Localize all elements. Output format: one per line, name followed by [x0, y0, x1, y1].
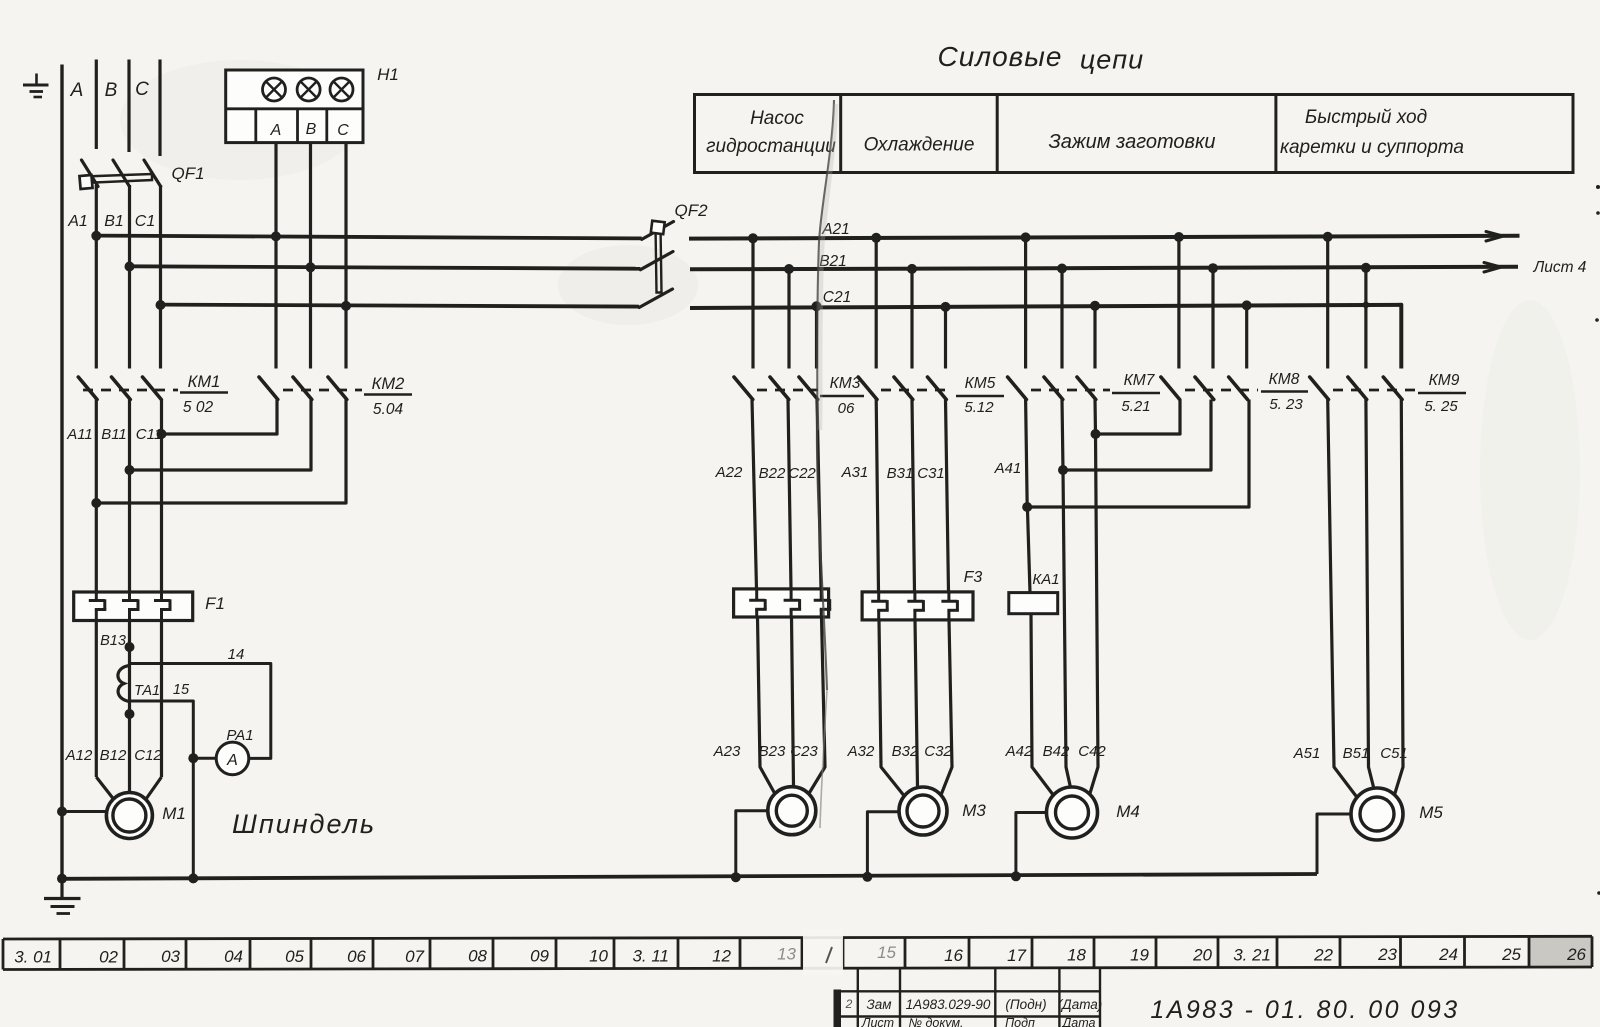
wire link C11 to KM2 pole1: [162, 400, 278, 435]
label Sheet 4 (Лист 4): [1533, 259, 1587, 276]
wire KM3 pole1 feed: [751, 238, 754, 368]
wire link KM8 pole3 out: [1027, 400, 1249, 508]
scan edge specks: [1595, 185, 1600, 895]
junction M3 frame-PE: [862, 872, 872, 882]
node label B22: [759, 465, 786, 482]
node label C1: [135, 213, 155, 230]
wire B13-B12 vertical: [128, 621, 131, 792]
contactor KM2 contacts: [259, 377, 362, 400]
wire KM5 pole2 feed: [910, 269, 913, 369]
svg-text:15: 15: [173, 682, 190, 698]
svg-text:М3: М3: [962, 801, 986, 820]
node label C23: [790, 743, 818, 760]
svg-text:B: B: [105, 80, 118, 101]
header cell 2 text: [864, 135, 975, 156]
wire KM7 pole1 feed: [1024, 237, 1027, 368]
label QF2: [674, 201, 708, 220]
svg-text:07: 07: [405, 947, 424, 966]
svg-text:06: 06: [838, 400, 855, 417]
wire C1 vertical: [159, 185, 162, 369]
label M4: [1116, 802, 1140, 821]
junction KM9 pole1 feed: [1323, 232, 1333, 242]
title Power circuits (Силовые цепи): [938, 41, 1145, 75]
node label B32: [892, 743, 919, 760]
wire phase stub B: [127, 60, 130, 153]
svg-text:16: 16: [944, 946, 963, 965]
wire KM1 output A11: [95, 400, 98, 593]
junction C11 link: [157, 429, 167, 439]
label KM5 with value 5.12: [956, 375, 1004, 416]
wire bottom PE bus: [62, 874, 1317, 879]
svg-text:В12: В12: [100, 747, 127, 764]
svg-text:19: 19: [1130, 946, 1149, 965]
svg-text:(Дата): (Дата): [1058, 997, 1103, 1012]
junction KM9 pole2 feed: [1361, 263, 1371, 273]
wire KM7 pole3 feed: [1093, 306, 1096, 369]
label KM7 with value 5.21: [1112, 372, 1160, 415]
node label B11: [101, 426, 127, 443]
wire KM7 out3 (C42): [1089, 400, 1098, 797]
scan fold crease: [817, 100, 836, 828]
wire KM3 out3 to M2: [807, 400, 826, 798]
junction KM8 pole3 feed: [1242, 300, 1252, 310]
junction KM3 pole2 feed: [784, 264, 794, 274]
label B21: [819, 253, 847, 270]
contactor KM5 contacts: [858, 377, 952, 400]
arrow A21 to sheet 4: [1486, 232, 1503, 242]
node label C32: [924, 743, 952, 760]
node label A41: [994, 460, 1022, 477]
node label A11: [66, 426, 93, 443]
wire KM5 pole3 feed: [944, 307, 947, 369]
fold damage on ruler: [803, 929, 843, 975]
svg-text:КА1: КА1: [1032, 571, 1059, 588]
svg-text:5.04: 5.04: [373, 401, 404, 418]
svg-text:(Подн): (Подн): [1005, 997, 1046, 1012]
header cell 1 text: [706, 108, 836, 157]
wire KM7 out1 (A41-A42): [1026, 400, 1054, 797]
svg-text:5. 23: 5. 23: [1269, 396, 1303, 413]
sheet zone ruler strip: [3, 936, 1592, 969]
junction B11 link: [125, 465, 135, 475]
svg-text:В13: В13: [100, 633, 126, 649]
label 14: [228, 646, 245, 663]
svg-text:С31: С31: [917, 465, 945, 482]
svg-text:КМ2: КМ2: [372, 375, 405, 393]
node label A42: [1005, 743, 1033, 760]
wire KM9 out3 to M5: [1394, 400, 1404, 799]
contactor KM7 contacts: [1008, 377, 1110, 400]
svg-text:Зажим заготовки: Зажим заготовки: [1048, 131, 1215, 153]
svg-text:5 02: 5 02: [183, 399, 214, 416]
wire KM5 pole1 feed: [875, 238, 878, 369]
junction A1-bus: [91, 231, 101, 241]
svg-text:С12: С12: [134, 747, 162, 764]
wire KM8 pole3 feed: [1245, 305, 1248, 368]
junction B13: [125, 642, 135, 652]
wire bus A1 segment: [96, 236, 641, 239]
node label C11: [136, 426, 162, 443]
node label C51: [1380, 745, 1408, 762]
svg-text:С22: С22: [788, 465, 816, 482]
svg-text:КМ7: КМ7: [1124, 372, 1156, 389]
svg-text:КМ1: КМ1: [188, 373, 221, 391]
node label A: [70, 80, 84, 101]
title block row2 text: [861, 1016, 1096, 1027]
svg-text:ТА1: ТА1: [134, 683, 160, 699]
svg-text:20: 20: [1192, 945, 1212, 964]
wire KM7 out2 (B42): [1062, 400, 1071, 788]
svg-text:2: 2: [845, 997, 853, 1011]
wire KM1 output B11: [128, 400, 131, 593]
svg-text:А31: А31: [841, 464, 869, 481]
wire KM3 out1 to M2: [752, 400, 777, 798]
motor M4: [1047, 787, 1098, 838]
function header table: [695, 95, 1574, 173]
junction KM5 pole2 feed: [907, 264, 917, 274]
wire H1-A vertical: [274, 143, 277, 369]
svg-text:5.21: 5.21: [1121, 398, 1150, 415]
junction link2: [1058, 465, 1068, 475]
node label C31: [917, 465, 945, 482]
svg-text:Быстрый ход: Быстрый ход: [1305, 107, 1427, 128]
svg-text:QF2: QF2: [674, 201, 708, 220]
svg-text:В11: В11: [101, 426, 127, 443]
label M1: [162, 804, 186, 823]
svg-text:Подп: Подп: [1005, 1016, 1035, 1027]
node label A51: [1293, 745, 1321, 762]
svg-text:F3: F3: [964, 569, 983, 586]
svg-text:КМ8: КМ8: [1269, 371, 1300, 388]
wire H1-B vertical: [309, 143, 312, 369]
svg-text:КМ5: КМ5: [965, 375, 996, 392]
svg-text:03: 03: [161, 947, 180, 966]
svg-text:А11: А11: [66, 426, 93, 443]
svg-text:24: 24: [1438, 945, 1458, 964]
junction KM5 pole1 feed: [871, 233, 881, 243]
svg-text:H1: H1: [377, 65, 399, 84]
label A21: [821, 221, 850, 238]
svg-text:М5: М5: [1419, 803, 1443, 822]
wire KM5 out2 to M3: [912, 400, 918, 788]
junction TA1 bottom: [125, 709, 135, 719]
svg-text:А32: А32: [847, 743, 875, 760]
node label B1: [104, 213, 124, 230]
wire KM5 out3 to M3: [940, 400, 952, 798]
svg-text:Дата: Дата: [1061, 1016, 1096, 1027]
svg-text:В51: В51: [1343, 745, 1370, 762]
svg-text:А22: А22: [715, 464, 743, 481]
svg-text:08: 08: [468, 947, 487, 966]
current transformer TA1: [118, 666, 130, 702]
svg-text:каретки и суппорта: каретки и суппорта: [1280, 137, 1464, 158]
svg-text:C: C: [337, 122, 349, 139]
ground PE symbol top-left: [23, 74, 49, 98]
junction PE-M1: [57, 807, 67, 817]
node label B: [105, 80, 118, 101]
svg-text:C: C: [135, 79, 149, 100]
svg-text:1А983.029-90: 1А983.029-90: [906, 997, 991, 1012]
title block grid: [834, 968, 1101, 1027]
label KM2 with value 5.04: [364, 375, 412, 418]
junction link3: [1022, 502, 1032, 512]
wire C12 vertical: [146, 621, 162, 800]
svg-text:06: 06: [347, 947, 366, 966]
wire KM9 pole1 feed: [1326, 237, 1329, 369]
junction KM7 pole1 feed: [1021, 232, 1031, 242]
motor M2: [768, 787, 816, 835]
svg-text:В42: В42: [1043, 743, 1070, 760]
circuit breaker QF2: [639, 221, 673, 308]
wire bus A21: [689, 236, 1520, 239]
wire M4 frame to PE: [1016, 813, 1047, 877]
wire PA1 node to PE bus: [192, 758, 195, 878]
wire M2 frame to PE: [736, 811, 768, 878]
label KM9 with value 5.25: [1418, 372, 1466, 415]
wire H1-C vertical: [344, 143, 347, 369]
svg-text:А42: А42: [1005, 743, 1033, 760]
junction A11 link: [91, 498, 101, 508]
thermal overload relay (M2 branch): [734, 589, 832, 617]
svg-text:Зам: Зам: [866, 997, 891, 1012]
circuit breaker QF1: [79, 160, 160, 189]
label QF1: [171, 164, 204, 183]
label KM1 with value 5.02: [180, 373, 228, 416]
wire link B11 to KM2 pole2: [130, 400, 312, 471]
node label A32: [847, 743, 875, 760]
header cell 3 text: [1048, 131, 1215, 153]
svg-text:A: A: [270, 122, 282, 139]
svg-text:Шпиндель: Шпиндель: [232, 809, 376, 839]
svg-text:КМ3: КМ3: [830, 375, 861, 392]
svg-text:22: 22: [1313, 945, 1333, 964]
svg-text:18: 18: [1067, 946, 1086, 965]
node label B23: [759, 743, 786, 760]
svg-text:A1: A1: [67, 213, 88, 230]
contactor KM9 contacts: [1310, 377, 1415, 400]
motor M1: [106, 793, 152, 839]
svg-text:Охлаждение: Охлаждение: [864, 135, 975, 156]
ammeter PA1: [216, 742, 249, 775]
ground symbol bottom: [44, 879, 81, 914]
wire bus B21: [690, 267, 1518, 270]
svg-text:05: 05: [285, 947, 304, 966]
wire bus B1 segment: [130, 266, 641, 268]
wire KM3 pole3 feed: [815, 306, 818, 368]
svg-text:КМ9: КМ9: [1429, 372, 1460, 389]
svg-text:5.12: 5.12: [964, 399, 994, 416]
svg-text:А51: А51: [1293, 745, 1321, 762]
junction H1B-bus: [306, 262, 316, 272]
wire link KM8 pole2 out: [1063, 400, 1211, 471]
current relay KA1: [1009, 593, 1058, 614]
node label C42: [1078, 743, 1106, 760]
svg-text:С23: С23: [790, 743, 818, 760]
svg-text:гидростанции: гидростанции: [706, 136, 836, 157]
wire A1 vertical: [95, 185, 98, 369]
junction link1: [1091, 429, 1101, 439]
svg-text:С21: С21: [823, 289, 851, 306]
svg-text:25: 25: [1501, 945, 1521, 964]
svg-text:1А983 - 01. 80. 00 093: 1А983 - 01. 80. 00 093: [1150, 996, 1459, 1024]
svg-text:Силовые: Силовые: [938, 41, 1063, 72]
wire bus C1 segment: [161, 305, 640, 307]
svg-text:№ докум.: № докум.: [908, 1016, 963, 1027]
junction KM3 pole1 feed: [748, 233, 758, 243]
svg-text:С32: С32: [924, 743, 952, 760]
junction crossing blob B21drop-C21: [1363, 302, 1370, 309]
node label B13: [100, 633, 126, 649]
wire KM7 pole2 feed: [1060, 269, 1063, 369]
junction H1A-bus: [271, 231, 281, 241]
svg-text:РА1: РА1: [226, 727, 253, 744]
wire bus C21: [690, 305, 1401, 369]
svg-text:B: B: [306, 121, 317, 138]
node label B31: [887, 465, 914, 482]
svg-text:С42: С42: [1078, 743, 1106, 760]
junction M2 frame-PE: [731, 872, 741, 882]
motor M5: [1351, 788, 1403, 840]
svg-text:3. 11: 3. 11: [632, 946, 669, 965]
title block row1 text: [845, 997, 1103, 1012]
label F3: [964, 569, 983, 586]
svg-text:А41: А41: [994, 460, 1022, 477]
node label C12: [134, 747, 162, 764]
label Spindle (Шпиндель): [232, 809, 376, 839]
wire M3 frame to PE: [867, 812, 899, 877]
svg-text:В22: В22: [759, 465, 786, 482]
svg-text:A: A: [70, 80, 84, 101]
node label A22: [715, 464, 743, 481]
thermal overload relay F3: [862, 592, 973, 620]
junction KM5 pole3 feed: [941, 302, 951, 312]
svg-text:цепи: цепи: [1080, 45, 1144, 75]
junction KM8 pole2 feed: [1208, 263, 1218, 273]
node label A12: [65, 747, 93, 764]
thermal overload relay F1: [74, 592, 193, 621]
svg-text:М4: М4: [1116, 802, 1140, 821]
junction KM7 pole2 feed: [1057, 264, 1067, 274]
wire 15 (TA1 to PA1): [130, 701, 217, 758]
wire KM9 pole2 feed: [1364, 268, 1367, 369]
header cell 4 text: [1280, 107, 1464, 158]
svg-text:3. 21: 3. 21: [1233, 945, 1271, 964]
wire KM3 out2 to M2: [788, 400, 794, 787]
label 15: [173, 682, 190, 698]
svg-text:15: 15: [877, 943, 896, 962]
junction PE corner: [57, 874, 67, 884]
svg-text:А: А: [226, 752, 238, 769]
label M3: [962, 801, 986, 820]
svg-text:5. 25: 5. 25: [1424, 398, 1458, 415]
svg-text:02: 02: [99, 947, 118, 966]
junction M4 frame-PE: [1011, 871, 1021, 881]
svg-text:В32: В32: [892, 743, 919, 760]
node label A1: [67, 213, 88, 230]
svg-text:В23: В23: [759, 743, 786, 760]
wire PE to M1 frame: [62, 810, 107, 813]
svg-text:26: 26: [1566, 945, 1586, 964]
junction H1C-bus: [341, 301, 351, 311]
junction KM3 pole3 feed: [812, 301, 822, 311]
svg-text:М1: М1: [162, 804, 186, 823]
label F1: [205, 594, 225, 613]
node label C: [135, 79, 149, 100]
contactor KM3 contacts: [734, 377, 818, 400]
wire M5 frame to PE: [1317, 814, 1352, 874]
wire B12 vertical: [96, 621, 113, 800]
svg-text:Лист 4: Лист 4: [1533, 259, 1587, 276]
motor M3: [899, 787, 947, 835]
label KA1: [1032, 571, 1059, 588]
contactor KM1 contacts: [78, 377, 178, 400]
junction C1-bus: [156, 300, 166, 310]
svg-text:17: 17: [1007, 946, 1026, 965]
arrow B21 to sheet 4: [1484, 263, 1501, 273]
wire KM5 out1 to M3: [876, 400, 905, 798]
label H1: [377, 65, 399, 84]
contactor KM8 contacts: [1161, 377, 1258, 400]
document number: [1150, 996, 1459, 1024]
wire KM8 pole1 feed: [1177, 237, 1180, 369]
junction B1-bus: [125, 262, 135, 272]
svg-text:В31: В31: [887, 465, 914, 482]
svg-text:23: 23: [1377, 945, 1397, 964]
junction KM8 pole1 feed: [1174, 232, 1184, 242]
svg-text:3. 01: 3. 01: [14, 947, 52, 966]
wire KM1 output C11: [160, 400, 163, 593]
node label A23: [713, 743, 741, 760]
label M5: [1419, 803, 1443, 822]
wire B1 vertical: [128, 185, 131, 369]
node label C22: [788, 465, 816, 482]
node label B42: [1043, 743, 1070, 760]
junction PA1-ground node: [188, 753, 198, 763]
label C21: [823, 289, 851, 306]
svg-text:А12: А12: [65, 747, 93, 764]
ruler zone numbers: [14, 943, 1586, 966]
junction KM7 pole3 feed: [1090, 301, 1100, 311]
label KM3 with value 5.06: [820, 375, 864, 417]
wire phase stub C: [158, 60, 161, 157]
signal lamp box H1: [226, 70, 363, 143]
label KM8 with value 5.23: [1261, 371, 1308, 413]
svg-text:QF1: QF1: [171, 164, 204, 183]
svg-text:Лист: Лист: [861, 1016, 894, 1027]
node label A31: [841, 464, 869, 481]
svg-text:А23: А23: [713, 743, 741, 760]
svg-text:10: 10: [589, 946, 608, 965]
wire KM9 out1 to M5: [1328, 400, 1358, 799]
wire 14 (TA1 to PA1): [130, 664, 271, 759]
wire PE vertical left: [60, 65, 63, 880]
svg-text:14: 14: [228, 646, 245, 663]
node label B51: [1343, 745, 1370, 762]
label PA1: [226, 727, 253, 744]
svg-text:C1: C1: [135, 213, 155, 230]
node label B12: [100, 747, 127, 764]
wire KM3 pole2 feed: [787, 269, 790, 369]
wire phase stub A: [95, 60, 98, 150]
svg-text:F1: F1: [205, 594, 225, 613]
svg-text:13: 13: [777, 945, 796, 964]
wire link A11 to KM2 pole3: [96, 400, 346, 504]
svg-text:09: 09: [530, 947, 549, 966]
wire link KM8 pole1 out: [1096, 400, 1181, 435]
wire KM8 pole2 feed: [1211, 268, 1214, 368]
svg-text:B1: B1: [104, 213, 124, 230]
junction PA1 drop on PE bus: [188, 873, 198, 883]
